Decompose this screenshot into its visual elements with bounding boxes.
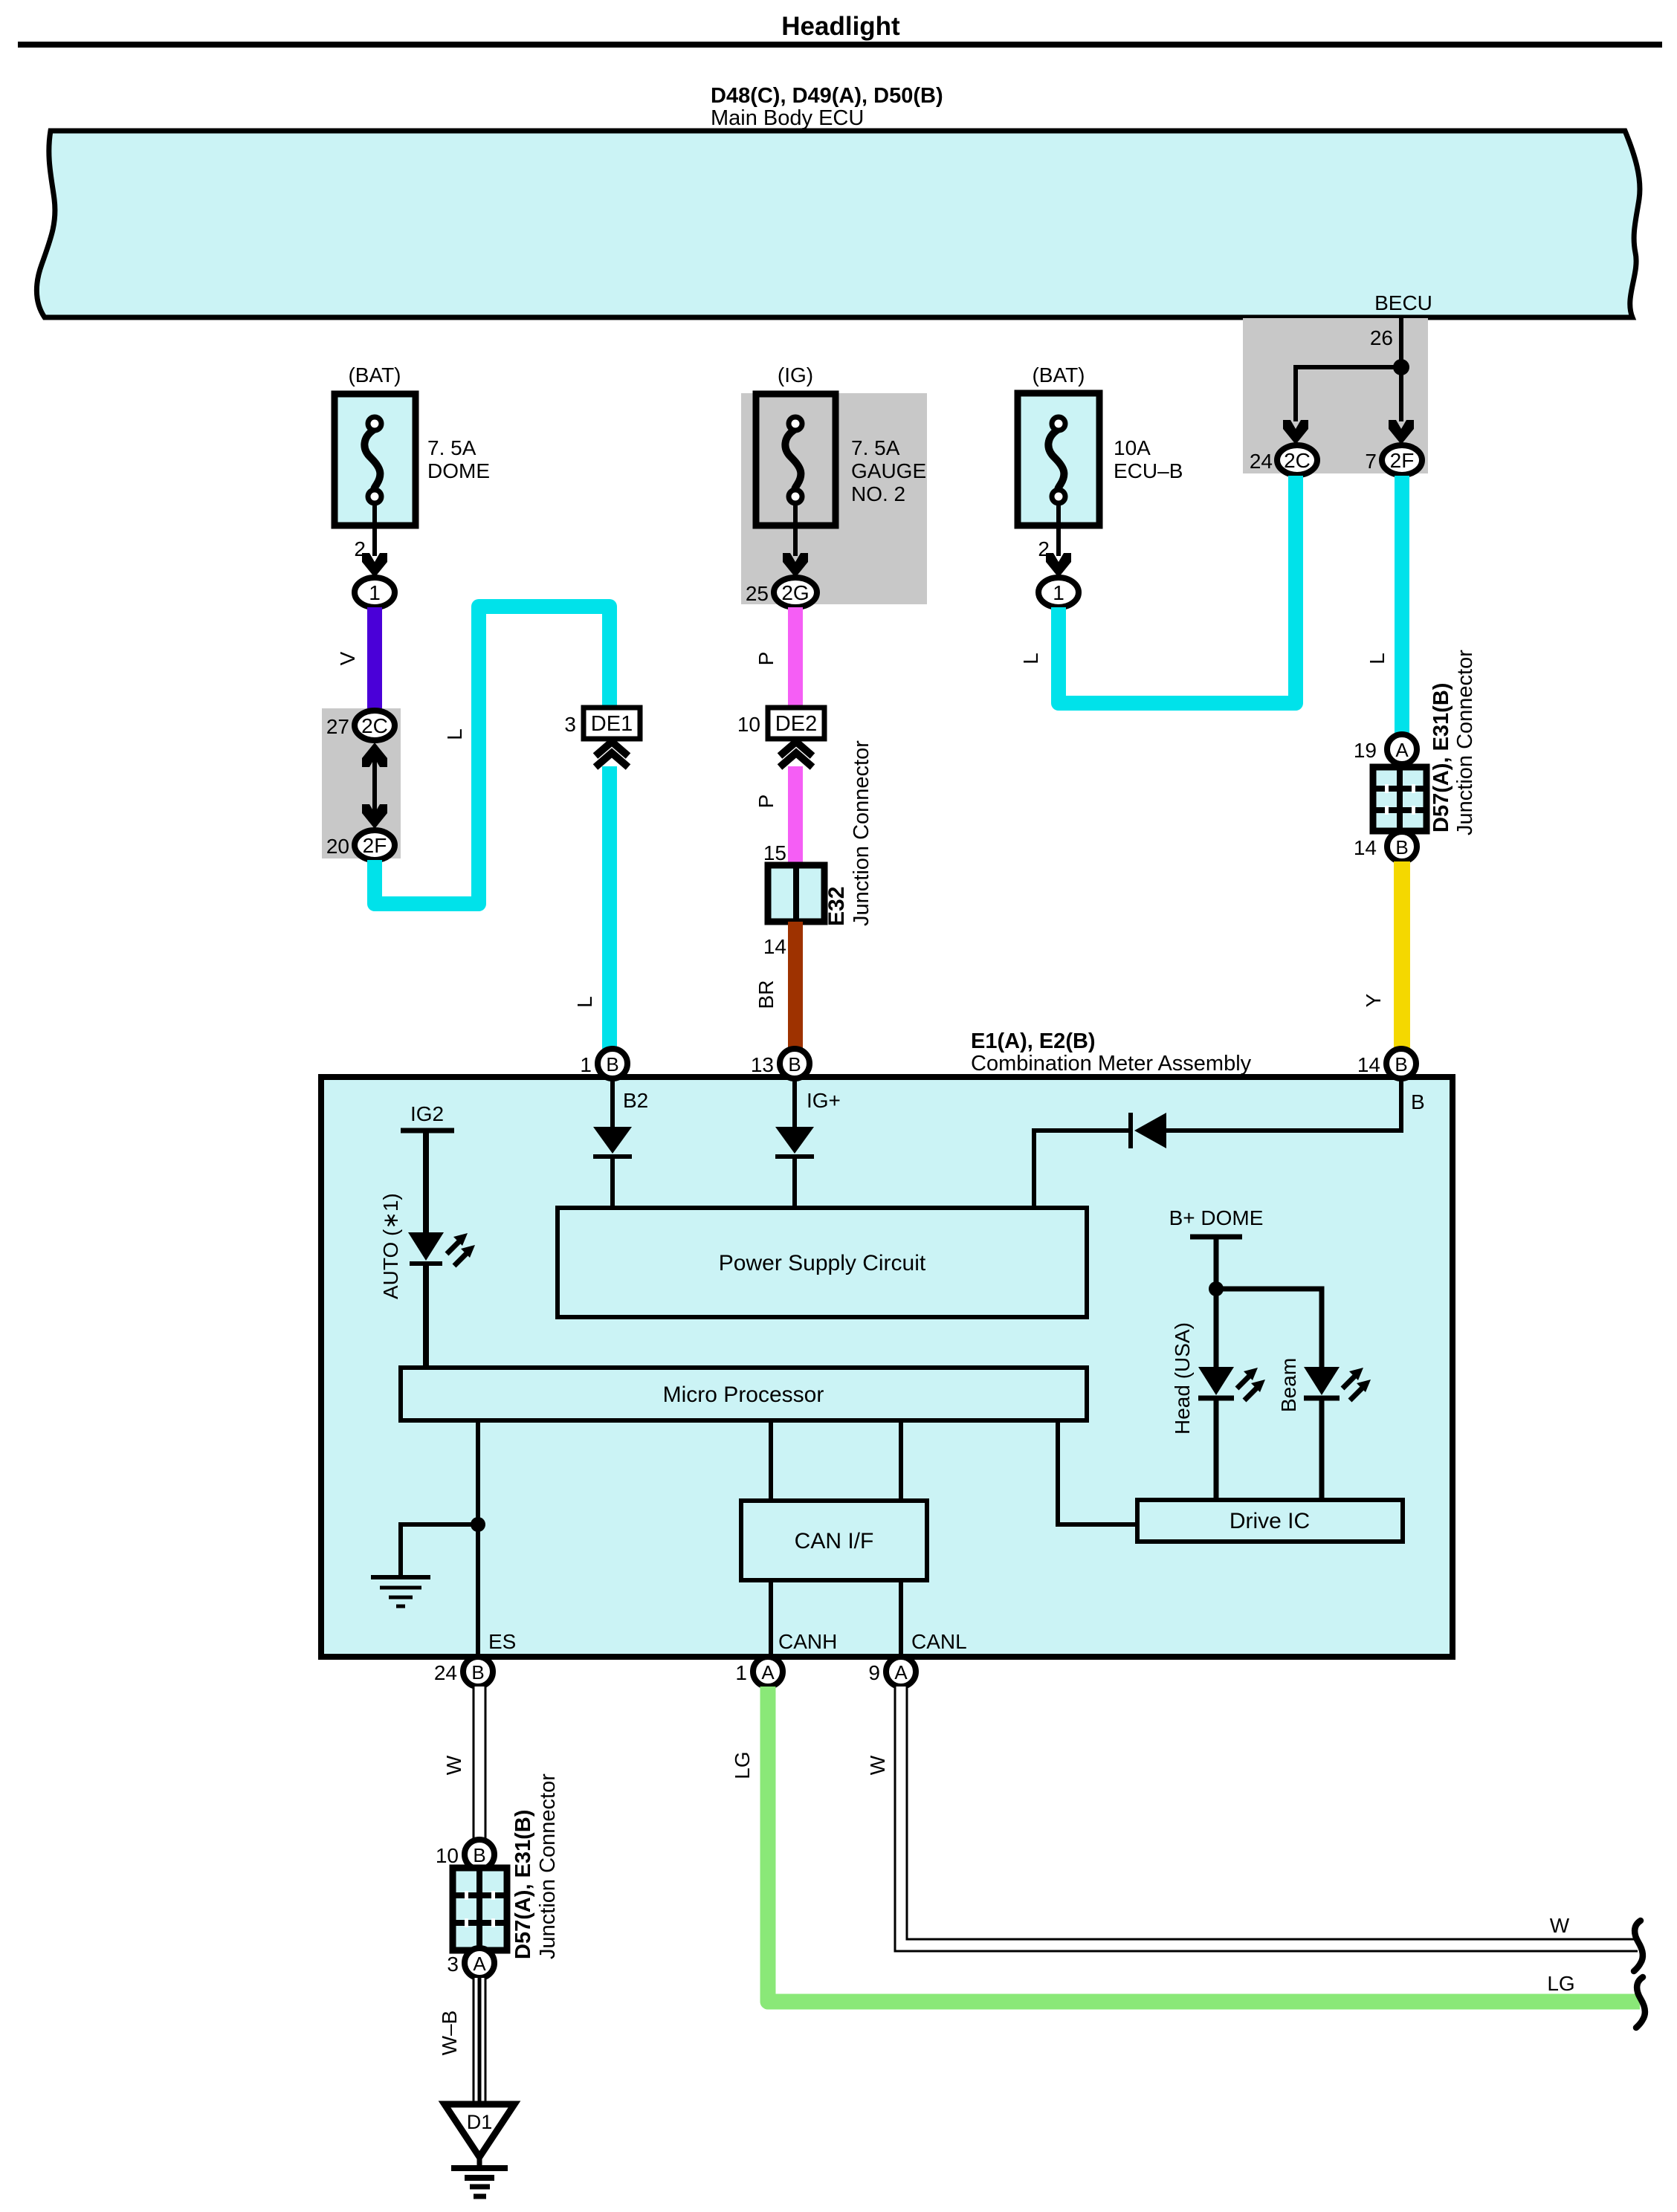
wire fuse DOME to terminal (372, 503, 377, 556)
pin B 1 (598, 1049, 627, 1078)
squiggle LG (1636, 1977, 1645, 2028)
svg-text:14: 14 (1357, 1053, 1380, 1076)
svg-text:IG2: IG2 (410, 1102, 444, 1125)
svg-text:Junction Connector: Junction Connector (536, 1773, 560, 1959)
junction connector E32 (768, 865, 824, 922)
arrowhead into 2G (783, 553, 808, 578)
diode IG+ (775, 1127, 814, 1154)
connector DE1 (3) (584, 708, 640, 739)
svg-text:1: 1 (735, 1661, 747, 1684)
svg-text:19: 19 (1354, 739, 1377, 762)
svg-text:1: 1 (580, 1053, 592, 1076)
svg-text:CAN I/F: CAN I/F (795, 1529, 874, 1553)
connector 2F (20) (355, 830, 395, 860)
svg-text:D1: D1 (467, 2111, 493, 2133)
terminal B (10) (465, 1840, 494, 1869)
fuse GAUGE symbol (785, 417, 802, 503)
svg-text:2C: 2C (1284, 449, 1311, 472)
junction connector D57 lower (453, 1868, 507, 1950)
svg-text:W: W (442, 1755, 465, 1775)
svg-text:27: 27 (326, 715, 349, 738)
svg-text:CANH: CANH (778, 1630, 837, 1653)
svg-text:ECU–B: ECU–B (1114, 459, 1183, 482)
wire L cyan ECU-B to 2C (1059, 476, 1296, 703)
svg-text:ES: ES (488, 1630, 516, 1653)
svg-text:AUTO (∗1): AUTO (∗1) (379, 1193, 402, 1299)
svg-text:DE2: DE2 (775, 712, 817, 736)
arrowhead into 2C (1283, 420, 1308, 444)
chevron below DE2 (780, 742, 812, 767)
svg-text:GAUGE: GAUGE (851, 459, 926, 482)
svg-text:14: 14 (763, 935, 786, 958)
pin B 14 (1386, 1049, 1416, 1078)
wire BR brown (788, 922, 803, 1049)
svg-text:B: B (1395, 836, 1408, 858)
svg-text:26: 26 (1370, 326, 1393, 349)
svg-text:P: P (755, 795, 778, 809)
svg-text:W: W (1550, 1914, 1570, 1937)
svg-text:(BAT): (BAT) (1032, 363, 1085, 387)
svg-text:NO. 2: NO. 2 (851, 482, 905, 505)
squiggle W (1634, 1921, 1643, 1971)
pin B 13 (780, 1049, 810, 1078)
svg-text:Junction Connector: Junction Connector (850, 740, 873, 926)
wire B2 (610, 1078, 615, 1127)
svg-text:2G: 2G (781, 581, 809, 604)
svg-text:1: 1 (1053, 581, 1064, 604)
wires MP to CAN IF (769, 1420, 773, 1501)
svg-text:B+ DOME: B+ DOME (1169, 1206, 1264, 1229)
terminal oval 1 (1038, 578, 1079, 607)
svg-text:15: 15 (763, 841, 786, 864)
terminal B (14) (1387, 832, 1417, 861)
svg-text:Headlight: Headlight (781, 12, 900, 41)
svg-text:IG+: IG+ (807, 1089, 841, 1112)
junction dot ES (471, 1517, 485, 1532)
wire W from ES (473, 1687, 487, 1840)
svg-text:B: B (1395, 1053, 1407, 1076)
wire P pink upper (788, 607, 803, 708)
wire fuse ECU-B to terminal (1056, 503, 1061, 556)
arrowhead into terminal 1 (362, 553, 387, 578)
box Power Supply Circuit (558, 1208, 1087, 1317)
svg-text:V: V (336, 651, 359, 665)
svg-text:A: A (473, 1953, 486, 1975)
svg-text:B: B (1411, 1090, 1425, 1113)
gray box 2C/2F left (322, 708, 401, 858)
Combination Meter Assembly box (321, 1077, 1453, 1657)
svg-text:24: 24 (1250, 450, 1273, 473)
box Drive IC (1137, 1500, 1403, 1542)
arrowhead into 2F (1389, 420, 1414, 444)
svg-text:14: 14 (1354, 836, 1377, 859)
arrowhead into terminal 1 (1046, 553, 1071, 578)
svg-text:(IG): (IG) (778, 363, 813, 387)
wire ES (476, 1420, 480, 1658)
LED Beam (1304, 1367, 1340, 1395)
double arrow between 2C and 2F (372, 752, 377, 819)
box CAN I/F (741, 1501, 927, 1580)
wire Y yellow (1394, 861, 1410, 1049)
wire W from CANL (901, 1687, 1638, 1945)
svg-text:B: B (606, 1053, 618, 1076)
svg-text:LG: LG (1547, 1972, 1574, 1995)
svg-text:E1(A), E2(B): E1(A), E2(B) (971, 1029, 1096, 1053)
svg-text:Junction Connector: Junction Connector (1453, 650, 1477, 835)
svg-text:Beam: Beam (1277, 1358, 1300, 1412)
svg-text:P: P (755, 652, 778, 666)
svg-text:CANL: CANL (911, 1630, 967, 1653)
svg-text:3: 3 (564, 713, 576, 736)
svg-text:Micro Processor: Micro Processor (663, 1382, 824, 1407)
svg-text:Power Supply Circuit: Power Supply Circuit (719, 1251, 926, 1275)
fuse GAUGE box (756, 394, 836, 525)
wire IG+ (792, 1078, 797, 1127)
wire V violet (367, 607, 382, 711)
svg-text:10: 10 (436, 1844, 459, 1867)
wire branch to 2F (1399, 367, 1403, 421)
svg-text:Combination Meter Assembly: Combination Meter Assembly (971, 1052, 1252, 1076)
svg-text:2F: 2F (1390, 449, 1415, 472)
svg-text:L: L (443, 728, 466, 740)
terminal oval 2G (25) (774, 578, 817, 607)
svg-text:L: L (573, 996, 596, 1008)
pin A 9 (886, 1657, 916, 1687)
box Micro Processor (401, 1368, 1087, 1420)
wire B to diode (1166, 1078, 1401, 1131)
svg-text:B: B (473, 1844, 485, 1866)
svg-text:E32: E32 (824, 887, 849, 926)
connector DE2 (10) (768, 708, 824, 739)
ground D1 (445, 2104, 514, 2157)
svg-text:A: A (1395, 739, 1409, 761)
diode B2 (593, 1127, 632, 1154)
svg-text:B: B (471, 1661, 484, 1684)
LED Head (USA) (1198, 1367, 1234, 1395)
svg-text:D48(C), D49(A), D50(B): D48(C), D49(A), D50(B) (711, 84, 943, 108)
fuse ECU-B symbol (1048, 417, 1065, 503)
ground branch (401, 1524, 478, 1577)
svg-text:DE1: DE1 (591, 712, 633, 736)
svg-text:7: 7 (1365, 450, 1377, 473)
svg-text:Main Body ECU: Main Body ECU (711, 106, 864, 130)
wire branch to 2C (1296, 367, 1401, 421)
svg-text:LG: LG (731, 1751, 754, 1779)
fuse DOME symbol (364, 417, 381, 503)
svg-text:13: 13 (751, 1053, 774, 1076)
terminal A (3) (465, 1948, 494, 1978)
svg-text:10: 10 (737, 713, 760, 736)
wire W-B (473, 1978, 487, 2103)
pin B 24 (463, 1657, 493, 1687)
gray box BECU connectors (1243, 318, 1428, 473)
wire L cyan 2F to A (1395, 476, 1409, 734)
fuse DOME box (335, 394, 416, 525)
wire LG green (768, 1687, 1640, 2002)
fuse ECU-B box (1018, 393, 1099, 525)
wire fuse GAUGE to terminal (793, 503, 798, 556)
svg-text:20: 20 (326, 835, 349, 858)
svg-text:D57(A), E31(B): D57(A), E31(B) (511, 1810, 535, 1959)
svg-text:BR: BR (755, 980, 778, 1009)
svg-text:3: 3 (447, 1953, 459, 1976)
svg-text:DOME: DOME (427, 459, 490, 482)
svg-text:24: 24 (434, 1661, 457, 1684)
wires CAN IF down (769, 1580, 773, 1658)
svg-text:D57(A), E31(B): D57(A), E31(B) (1429, 683, 1453, 832)
terminal oval 1 (355, 578, 395, 607)
svg-text:7. 5A: 7. 5A (427, 436, 476, 459)
svg-text:2F: 2F (363, 834, 387, 857)
wire P pink lower (788, 766, 803, 865)
svg-text:W–B: W–B (438, 2011, 461, 2056)
wire BECU down (1399, 318, 1403, 367)
connector 2C (27) (355, 711, 395, 740)
junction dot (1393, 359, 1409, 375)
svg-text:2C: 2C (361, 714, 388, 737)
svg-text:L: L (1366, 653, 1389, 664)
wire L cyan DE1 to meter (602, 766, 617, 1049)
svg-text:Drive IC: Drive IC (1230, 1509, 1310, 1533)
svg-text:Head (USA): Head (USA) (1171, 1322, 1194, 1435)
svg-text:W: W (866, 1755, 889, 1775)
gray box GAUGE fuse (741, 393, 927, 604)
wire L cyan from 2F to DE1 (375, 607, 610, 904)
svg-text:9: 9 (868, 1661, 880, 1684)
svg-text:1: 1 (369, 581, 381, 604)
svg-text:BECU: BECU (1374, 291, 1432, 314)
diode B (1134, 1113, 1166, 1148)
svg-text:A: A (894, 1661, 908, 1684)
svg-text:10A: 10A (1114, 436, 1151, 459)
title rule (18, 42, 1662, 48)
chevron below DE1 (595, 742, 628, 767)
terminal A (19) (1387, 734, 1417, 764)
wire MP to Drive IC (1058, 1420, 1137, 1524)
ground (371, 1577, 430, 1606)
svg-text:B: B (788, 1053, 801, 1076)
svg-text:25: 25 (746, 582, 769, 605)
connector 2C (24) (1277, 445, 1317, 475)
LED AUTO (408, 1232, 444, 1261)
connector 2F (7) (1382, 445, 1422, 475)
svg-text:A: A (761, 1661, 775, 1684)
svg-text:Y: Y (1362, 993, 1385, 1007)
pin A 1 (753, 1657, 783, 1687)
svg-text:(BAT): (BAT) (348, 363, 401, 387)
svg-text:L: L (1019, 653, 1042, 664)
junction connector D57 upper (1373, 767, 1426, 831)
svg-text:B2: B2 (623, 1089, 648, 1112)
Main Body ECU band (36, 131, 1640, 317)
svg-text:7. 5A: 7. 5A (851, 436, 900, 459)
